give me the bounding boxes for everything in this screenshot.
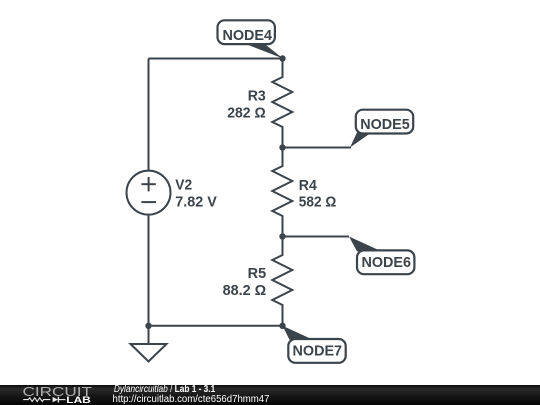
label R5 value bbox=[223, 266, 267, 299]
junction dot NODE4 bbox=[279, 55, 285, 61]
junction dot NODE7 bbox=[279, 323, 285, 329]
svg-text:NODE7: NODE7 bbox=[293, 343, 343, 359]
node flag NODE5 pointer bbox=[350, 132, 372, 147]
wire NODE5 stub bbox=[283, 147, 352, 149]
node flag NODE6 pointer bbox=[349, 237, 382, 252]
logo mini schematic diode bbox=[53, 397, 66, 403]
wire NODE6 stub bbox=[283, 236, 350, 238]
node flag NODE7 pointer bbox=[283, 326, 314, 340]
node flag NODE6 bbox=[357, 250, 414, 274]
resistor R3 bbox=[272, 59, 292, 148]
node flag NODE7 bbox=[288, 339, 345, 363]
logo mini schematic resistor bbox=[23, 398, 50, 402]
voltage source V2 bbox=[127, 171, 171, 215]
label R3 value bbox=[227, 89, 266, 122]
wire V2 minus terminal down bbox=[148, 215, 150, 326]
svg-text:V2: V2 bbox=[175, 178, 192, 194]
junction dot NODE6 bbox=[279, 233, 285, 239]
svg-text:R3: R3 bbox=[248, 89, 266, 105]
svg-text:LAB: LAB bbox=[66, 395, 91, 405]
junction dot NODE5 bbox=[279, 144, 285, 150]
node flag NODE4 bbox=[218, 20, 275, 44]
svg-text:282 Ω: 282 Ω bbox=[227, 106, 266, 122]
svg-text:582 Ω: 582 Ω bbox=[299, 195, 337, 211]
node flag NODE5 bbox=[356, 110, 413, 134]
svg-text:NODE6: NODE6 bbox=[361, 255, 411, 271]
junction dot ground-left bbox=[145, 323, 151, 329]
node flag NODE4 pointer bbox=[247, 44, 284, 58]
svg-text:R4: R4 bbox=[299, 178, 317, 194]
resistor R4 bbox=[272, 148, 292, 237]
label V2 value bbox=[175, 178, 217, 211]
wire bottom horizontal NODE7 net bbox=[149, 325, 283, 327]
wire left vertical to V2 plus terminal bbox=[148, 59, 150, 171]
resistor R5 bbox=[272, 237, 292, 326]
ground bbox=[131, 326, 167, 362]
svg-text:88.2 Ω: 88.2 Ω bbox=[223, 283, 267, 299]
svg-text:NODE5: NODE5 bbox=[360, 117, 410, 133]
svg-text:http://circuitlab.com/cte656d7: http://circuitlab.com/cte656d7hmm47 bbox=[113, 394, 270, 405]
wire top horizontal NODE4 net bbox=[149, 58, 283, 60]
label R4 value bbox=[299, 178, 337, 211]
svg-text:R5: R5 bbox=[248, 266, 267, 282]
footer bar bbox=[0, 385, 540, 405]
svg-text:NODE4: NODE4 bbox=[222, 28, 272, 44]
svg-text:7.82 V: 7.82 V bbox=[175, 195, 217, 211]
